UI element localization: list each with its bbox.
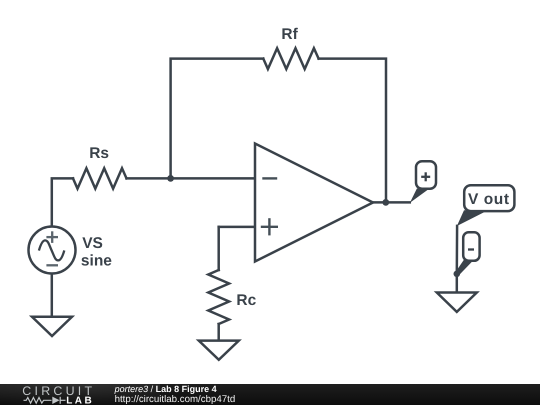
footer bar <box>0 384 540 405</box>
svg-text:VS: VS <box>82 235 103 252</box>
wire VS top to Rs left lead <box>52 178 73 226</box>
wire node C to ground <box>456 274 459 293</box>
svg-text:portere3 / Lab 8 Figure 4: portere3 / Lab 8 Figure 4 <box>114 384 217 394</box>
wire Rs right lead to op-amp inverting input <box>127 177 256 180</box>
wire VS bottom to ground <box>51 274 54 317</box>
CircuitLab logo <box>22 384 95 405</box>
ground (Rc) <box>199 341 239 360</box>
svg-text:LAB: LAB <box>66 395 94 405</box>
wire Rc top lead <box>217 227 220 270</box>
svg-text:V out: V out <box>468 191 510 208</box>
svg-text:Rf: Rf <box>281 26 298 43</box>
svg-text:http://circuitlab.com/cbp47td: http://circuitlab.com/cbp47td <box>115 394 236 405</box>
wire Rc bottom lead to ground <box>217 324 220 341</box>
terminal flag + <box>410 161 436 203</box>
voltage source VS <box>29 227 76 274</box>
wire node A up to Rf left lead <box>171 59 264 179</box>
ground (VS) <box>32 317 72 336</box>
op-amp U1 <box>255 144 373 262</box>
ground (V out) <box>437 293 477 312</box>
svg-text:Rc: Rc <box>236 292 256 309</box>
resistor Rf <box>263 48 318 69</box>
node C (V out lower junction) <box>454 271 461 278</box>
wire Rc top to op-amp non-inverting input <box>219 226 255 229</box>
svg-text:sine: sine <box>81 253 112 270</box>
resistor Rs <box>73 168 127 188</box>
terminal flag - <box>456 232 480 274</box>
node B (output junction) <box>382 199 389 206</box>
svg-text:Rs: Rs <box>89 145 109 162</box>
node A (inverting input junction) <box>167 175 174 182</box>
wire op-amp output through node B to + flag <box>373 201 410 204</box>
terminal flag V out <box>457 185 515 226</box>
wire Rf right lead down to output node B <box>319 59 386 203</box>
resistor Rc <box>208 270 229 324</box>
wire V out flag down to node C <box>456 226 459 274</box>
